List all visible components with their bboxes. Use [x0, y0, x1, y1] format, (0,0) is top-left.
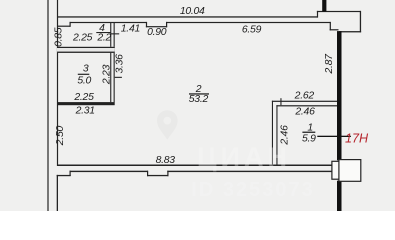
- inner top wall line left low segment: [57, 26, 71, 27]
- svg-text:2.46: 2.46: [294, 107, 315, 118]
- dimension tick 3.36: [115, 77, 122, 78]
- svg-text:2.31: 2.31: [75, 105, 95, 116]
- recess left vertical: [146, 22, 147, 27]
- room 2 underline: [189, 93, 209, 94]
- lower unit top line segment 1: [70, 171, 149, 172]
- room 1 underline: [302, 132, 315, 133]
- top black wall stub: [322, 0, 326, 12]
- bottom wall upper line: [57, 165, 332, 167]
- right thick wall upper: [337, 31, 342, 160]
- top-right protrusion bottom edge: [339, 31, 361, 32]
- room 4 bottom wall band: [57, 47, 115, 53]
- room 1 left wall outer line: [272, 101, 273, 165]
- room 4 label underline: [96, 32, 111, 33]
- inner top wall step down at right: [330, 22, 331, 31]
- svg-text:5.9: 5.9: [302, 133, 316, 144]
- room 3 underline: [78, 74, 90, 75]
- lower unit notch 1 line: [57, 175, 71, 176]
- top-right protrusion right edge: [360, 11, 361, 32]
- svg-text:0.90: 0.90: [147, 27, 167, 38]
- room 3/4 right wall outer line: [110, 23, 111, 102]
- room 1 left wall inner line: [276, 105, 277, 164]
- lower unit notch 2 left vertical: [147, 171, 148, 177]
- inner top wall step at x70: [70, 22, 71, 27]
- svg-text:8.83: 8.83: [156, 155, 176, 166]
- leader line 17H: [317, 136, 351, 137]
- svg-text:2.25: 2.25: [72, 32, 93, 43]
- svg-text:1.41: 1.41: [121, 23, 140, 34]
- right thick wall lower: [337, 181, 342, 211]
- inner top wall right low segment: [330, 29, 339, 30]
- room 1 top wall: [276, 105, 337, 106]
- svg-text:10.04: 10.04: [180, 6, 205, 17]
- svg-text:5.0: 5.0: [77, 75, 91, 86]
- lower unit notch 2 right vertical: [167, 171, 168, 177]
- lower unit notch 2 line: [147, 175, 169, 176]
- svg-text:ID 3253073: ID 3253073: [191, 179, 314, 201]
- room 3 bottom thick wall: [57, 102, 115, 105]
- svg-text:17Н: 17Н: [345, 131, 369, 145]
- left wall outer line: [47, 0, 48, 211]
- svg-text:2.25: 2.25: [73, 92, 94, 103]
- svg-text:3.36: 3.36: [114, 54, 125, 74]
- lower unit notch 1 connector: [70, 171, 71, 176]
- top outer raised line: [317, 11, 361, 12]
- svg-text:2.50: 2.50: [55, 126, 66, 147]
- pillar box left tab: [332, 161, 340, 179]
- recess bottom line 0.90: [146, 26, 167, 27]
- svg-text:2.2: 2.2: [96, 32, 111, 43]
- svg-text:2.23: 2.23: [101, 64, 112, 85]
- recess right vertical: [166, 22, 167, 27]
- room 4 leader: [111, 33, 119, 34]
- lower unit top line segment 2: [167, 171, 332, 172]
- room 1 dim line 2.62: [272, 101, 337, 102]
- svg-text:6.59: 6.59: [242, 24, 262, 35]
- svg-text:ЦИАН: ЦИАН: [197, 142, 291, 172]
- svg-text:2.87: 2.87: [324, 53, 335, 75]
- pillar box main: [339, 160, 361, 182]
- svg-text:53.2: 53.2: [189, 94, 209, 105]
- left wall inner line (upper): [57, 0, 58, 166]
- left wall inner line (lower unit): [57, 175, 58, 211]
- svg-text:0.85: 0.85: [53, 27, 64, 47]
- top outer step vertical: [317, 11, 318, 18]
- svg-text:3: 3: [83, 64, 89, 75]
- room 1 dim tick: [280, 98, 281, 105]
- svg-text:2.62: 2.62: [294, 91, 315, 102]
- top outer wall line: [57, 16, 318, 17]
- watermark pin icon: [157, 110, 178, 140]
- inner top wall line long segment: [166, 22, 331, 23]
- room 3/4 right wall inner line: [114, 23, 115, 102]
- inner top wall line to recess: [70, 22, 147, 23]
